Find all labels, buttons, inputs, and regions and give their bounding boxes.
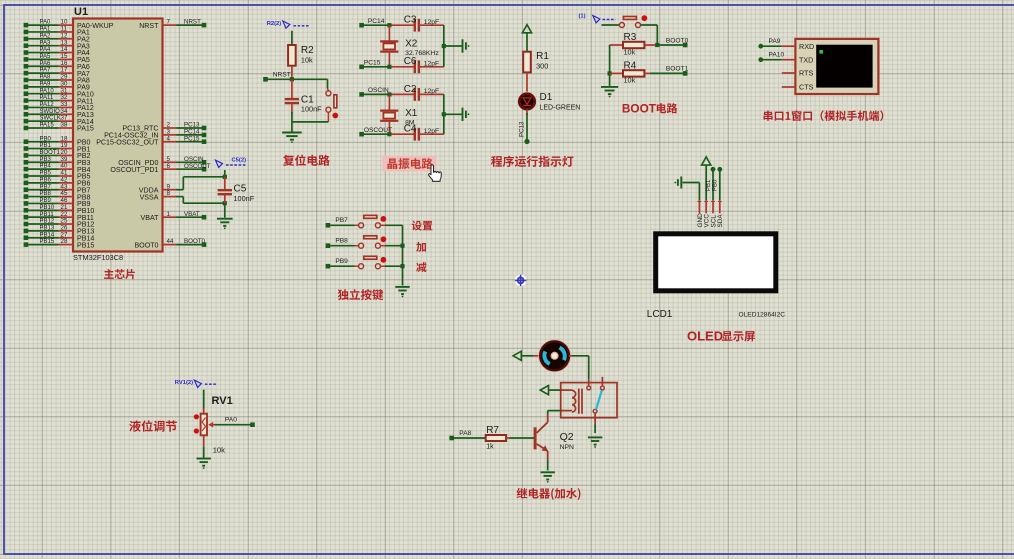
wire VDDA to C5 top node (176, 177, 225, 190)
svg-text:PB1: PB1 (706, 179, 712, 191)
IC U1 STM32F103C8 body (73, 19, 163, 252)
wire VSSA to C5 bottom node (176, 197, 225, 204)
svg-text:D1: D1 (540, 92, 553, 103)
reset push button vertical (326, 79, 337, 122)
svg-text:PC14: PC14 (368, 18, 385, 25)
relay switch lever cyan (596, 390, 602, 409)
svg-text:NRST: NRST (139, 22, 159, 30)
wire C1 bottom to ground (291, 122, 293, 132)
wire right vertical bus (444, 94, 462, 134)
blue snap marker (515, 275, 527, 287)
svg-text:12pF: 12pF (424, 19, 440, 26)
relay RL coil+switch box (561, 383, 617, 418)
ground Q2 (541, 472, 555, 483)
wire Q2 emitter to ground (547, 460, 549, 471)
pin PB0 (18) with net PB0 wire and terminal (24, 135, 91, 146)
terminal dot PC13 (524, 139, 529, 144)
capacitor C1 (285, 79, 299, 122)
svg-text:PA8: PA8 (40, 75, 52, 81)
svg-text:X2: X2 (405, 39, 418, 50)
svg-text:SWCLK: SWCLK (40, 116, 61, 122)
pin PB14 (27) with net PB14 wire and terminal (24, 231, 95, 242)
pin PA13 (34) with net SWDIO wire and terminal (24, 108, 94, 119)
pin VDDA (9) right side (139, 183, 177, 194)
svg-text:PB4: PB4 (40, 164, 52, 170)
svg-text:OLED12864I2C: OLED12864I2C (739, 312, 786, 319)
RV1 labels (212, 395, 233, 455)
wire OLED SCL to PB1 (706, 167, 716, 200)
svg-text:OLED: OLED (687, 328, 723, 343)
svg-text:100nF: 100nF (234, 194, 255, 203)
ground left of OLED (674, 177, 681, 189)
BOOT push button horizontal (619, 17, 640, 28)
svg-text:NRST: NRST (273, 72, 291, 79)
terminal pin RTS (782, 69, 814, 78)
svg-text:R3: R3 (624, 32, 637, 43)
wire R2 top stub (291, 31, 293, 45)
svg-text:RV1: RV1 (212, 395, 233, 407)
label 串口1窗口（模拟手机端） (764, 110, 884, 121)
pin PB8 (45) with net PB8 wire and terminal (24, 190, 91, 201)
svg-text:X1: X1 (405, 108, 418, 119)
svg-text:PC13: PC13 (519, 121, 526, 137)
svg-text:10k: 10k (213, 445, 225, 454)
pin NRST (7) right side (139, 19, 206, 30)
mouse hand cursor (429, 165, 442, 181)
junction OSCOUT/crystal (387, 132, 391, 136)
resistor R1 (523, 52, 531, 92)
resistor R7 labels (486, 425, 499, 450)
capacitor C5 (218, 177, 232, 203)
pin BOOT0 (44) right side (134, 238, 206, 249)
ground below C5 (217, 219, 233, 230)
wire power to relay coil (549, 389, 561, 391)
svg-text:1k: 1k (486, 443, 494, 450)
pin PB3 (39) with net PB3 wire and terminal (24, 156, 91, 167)
svg-text:VBAT: VBAT (140, 214, 159, 222)
svg-text:CTS: CTS (799, 83, 814, 92)
crystal X1 (380, 94, 398, 134)
transistor Q2 NPN (534, 414, 548, 460)
svg-text:44: 44 (167, 238, 174, 245)
wire BOOT1 with terminal (650, 66, 689, 76)
net label pointer R2(2) (267, 21, 309, 28)
svg-text:LED-GREEN: LED-GREEN (540, 105, 581, 112)
wire power to R1 (526, 33, 528, 52)
svg-text:4: 4 (167, 135, 171, 142)
wire C1 bottom to button bottom (292, 121, 329, 123)
power symbol left of motor (513, 351, 521, 360)
svg-text:6: 6 (167, 163, 171, 170)
svg-text:U1: U1 (74, 6, 88, 18)
svg-text:C5(2): C5(2) (232, 158, 247, 164)
svg-text:PC15: PC15 (184, 135, 200, 142)
capacitor C5 labels (234, 184, 255, 204)
pin VSSA (8) right side (140, 190, 177, 201)
wire relay coil to Q2 collector (548, 411, 561, 414)
svg-text:BOOT1: BOOT1 (40, 150, 61, 156)
wire PA8 to R7 (452, 437, 486, 439)
terminal pin CTS (782, 83, 814, 92)
svg-text:PA9: PA9 (769, 38, 781, 45)
svg-text:PB5: PB5 (40, 171, 52, 177)
wire OSCOUT row (362, 133, 391, 135)
wire BOOT button right down to BOOT0 (641, 25, 658, 45)
svg-text:PB7: PB7 (335, 217, 348, 224)
svg-text:PA12: PA12 (40, 102, 55, 108)
wire power to motor (521, 355, 540, 357)
selection highlight behind 晶振电路 (382, 156, 436, 172)
capacitor C1 labels (301, 94, 322, 113)
relay pin circles (587, 377, 605, 425)
svg-text:PC15-OSC32_OUT: PC15-OSC32_OUT (96, 138, 159, 146)
resistor R2 labels (301, 45, 314, 65)
svg-text:12pF: 12pF (424, 88, 440, 95)
svg-text:PA3: PA3 (40, 40, 52, 46)
junction key bus PB8 (400, 244, 404, 248)
svg-text:R2: R2 (301, 45, 314, 56)
svg-text:PB0: PB0 (713, 179, 719, 191)
label 设置 (set) (412, 221, 433, 231)
svg-text:PB14: PB14 (40, 232, 55, 238)
svg-text:TXD: TXD (799, 55, 813, 64)
svg-text:RV1(2): RV1(2) (175, 380, 193, 386)
svg-text:STM32F103C8: STM32F103C8 (73, 253, 123, 262)
RV1 adjust red dots (194, 414, 199, 433)
svg-text:PA5: PA5 (40, 54, 52, 60)
pin PA15 (38) with net PA15 wire and terminal (24, 122, 94, 133)
svg-text:C3: C3 (404, 15, 417, 26)
ground sideways right (463, 108, 470, 121)
junction PC15/crystal (387, 65, 391, 69)
potentiometer RV1 (201, 414, 207, 447)
pin PC14-OSC32_IN (3) right side (104, 129, 206, 140)
wire motor to relay common (569, 356, 589, 380)
svg-text:OSCOUT_PD1: OSCOUT_PD1 (110, 166, 158, 174)
terminal pin RXD (782, 42, 814, 51)
svg-text:PA9: PA9 (40, 81, 52, 87)
wire to ground BOOT (609, 73, 611, 86)
push button PB9 row (326, 256, 403, 268)
power symbol OLED VCC (702, 157, 711, 165)
pin VBAT (1) right side (140, 211, 206, 222)
pin PA5 (15) with net PA5 wire and terminal (24, 53, 90, 64)
svg-text:10k: 10k (624, 47, 636, 56)
svg-text:PB9: PB9 (40, 198, 52, 204)
wire PA9 to RXD (758, 38, 781, 48)
pin PB9 (46) with net PB9 wire and terminal (24, 197, 91, 208)
pin PA1 (11) with net PA1 wire and terminal (24, 26, 90, 37)
ground reset circuit (282, 133, 302, 144)
svg-text:PB7: PB7 (40, 184, 52, 190)
svg-text:PA0: PA0 (225, 417, 237, 424)
LED D1 (519, 94, 534, 109)
push button PB8 row (326, 236, 403, 248)
svg-text:BOOT0: BOOT0 (184, 238, 206, 245)
pin PB4 (40) with net PB4 wire and terminal (24, 163, 91, 174)
transistor Q2 labels (560, 431, 574, 451)
pin PA14 (37) with net SWCLK wire and terminal (24, 115, 94, 126)
label BOOT电路 (622, 101, 677, 115)
pin PA2 (12) with net PA2 wire and terminal (24, 32, 90, 43)
reset button red state dot (332, 113, 338, 119)
pin PA11 (32) with net PA11 wire and terminal (24, 94, 94, 105)
svg-text:(1): (1) (579, 13, 586, 19)
resistor R3 labels (624, 32, 637, 56)
svg-text:PB9: PB9 (335, 258, 348, 265)
svg-text:RTS: RTS (799, 69, 813, 78)
pin PB2 (20) with net BOOT1 wire and terminal (24, 149, 91, 160)
label 晶振电路 (crystal circuit) (387, 158, 432, 169)
wire OSCIN row (362, 93, 391, 95)
svg-text:BOOT: BOOT (622, 101, 657, 115)
junction NRST/R2/C1 (290, 77, 294, 81)
svg-text:PB10: PB10 (40, 205, 55, 211)
virtual terminal screen (816, 45, 872, 88)
svg-text:PB3: PB3 (40, 157, 52, 163)
junction OSCIN/crystal (387, 92, 391, 96)
svg-text:PB1: PB1 (40, 143, 52, 149)
svg-text:7: 7 (167, 19, 171, 26)
svg-text:C4: C4 (404, 124, 417, 135)
wire R7 to Q2 base (510, 437, 535, 439)
ground relay (588, 437, 602, 448)
svg-text:SDA: SDA (717, 214, 724, 228)
terminal pin TXD (782, 55, 814, 64)
svg-text:C6: C6 (404, 56, 417, 67)
resistor R4 (610, 70, 650, 76)
svg-text:PB0: PB0 (40, 136, 52, 142)
svg-text:10k: 10k (301, 56, 313, 65)
pin PB1 (19) with net PB1 wire and terminal (24, 142, 91, 153)
capacitor C6 labels (404, 56, 440, 67)
wire C5 labeled stub (224, 170, 226, 177)
svg-text:OSCIN: OSCIN (368, 87, 389, 94)
svg-text:BOOT0: BOOT0 (134, 241, 158, 249)
svg-text:12pF: 12pF (424, 128, 440, 135)
pin PA10 (31) with net PA10 wire and terminal (24, 87, 94, 98)
pin PB10 (21) with net PB10 wire and terminal (24, 204, 95, 215)
BOOT button red state dot (642, 15, 648, 21)
label 加 (plus) (416, 242, 426, 252)
net terminal PC15 (359, 60, 380, 70)
resistor R7 (486, 435, 510, 441)
pin PA0-WKUP (10) with net PA0 wire and terminal (24, 19, 114, 30)
svg-text:SWDIO: SWDIO (40, 109, 61, 115)
virtual terminal body (795, 39, 878, 94)
wire RV1 bottom to ground (203, 447, 205, 458)
relay coil (561, 389, 582, 414)
svg-text:PA11: PA11 (40, 95, 54, 101)
svg-text:BOOT0: BOOT0 (666, 37, 689, 44)
motor (pump) (539, 340, 571, 372)
RV1 wiper arrow (208, 422, 214, 428)
svg-text:12pF: 12pF (424, 61, 440, 68)
svg-text:300: 300 (536, 62, 548, 71)
capacitor C3 (391, 19, 444, 32)
junction node C5 top (223, 175, 227, 179)
pin PB7 (43) with net PB7 wire and terminal (24, 183, 91, 194)
pin PC13_RTC (2) right side (122, 122, 206, 133)
svg-text:PB11: PB11 (40, 212, 55, 218)
net label pointer RV1(2) (175, 380, 217, 387)
svg-text:PA8: PA8 (459, 430, 471, 437)
wire key bus vertical (402, 225, 404, 285)
svg-text:PC15: PC15 (364, 60, 381, 67)
pin PA4 (14) with net PA4 wire and terminal (24, 46, 90, 57)
pin PA3 (13) with net PA3 wire and terminal (24, 39, 90, 50)
svg-text:PA15: PA15 (40, 123, 55, 129)
svg-text:PB15: PB15 (40, 239, 55, 245)
svg-text:PA2: PA2 (40, 33, 52, 39)
svg-text:RXD: RXD (799, 42, 814, 51)
svg-text:PB8: PB8 (335, 237, 348, 244)
junction R4 left (608, 71, 612, 75)
resistor R4 labels (624, 60, 637, 84)
pin PC15-OSC32_OUT (4) right side (96, 135, 206, 146)
label 继电器(加水) (relay add-water) (517, 488, 581, 500)
label 减 (minus) (416, 262, 426, 272)
wire right vertical bus (444, 25, 462, 67)
pin PA7 (17) with net PA7 wire and terminal (24, 67, 90, 78)
terminal green cursor (819, 50, 823, 54)
resistor R2 (288, 45, 296, 79)
label 程序运行指示灯 (program run indicator) (491, 156, 573, 167)
svg-text:BOOT1: BOOT1 (666, 66, 689, 73)
wire R3 left down to R4 (609, 45, 611, 73)
pin PB11 (22) with net PB11 wire and terminal (24, 211, 94, 222)
svg-text:NPN: NPN (560, 444, 574, 451)
svg-text:C5: C5 (234, 184, 247, 195)
svg-text:8: 8 (167, 190, 171, 197)
svg-text:Q2: Q2 (560, 431, 574, 443)
svg-text:PB8: PB8 (40, 191, 52, 197)
net terminal PC14 (359, 18, 384, 28)
pin OSCIN_PD0 (5) right side (118, 156, 206, 167)
pin PA12 (33) with net PA12 wire and terminal (24, 101, 94, 112)
wire PA10 to TXD (758, 52, 784, 62)
svg-text:PA4: PA4 (40, 47, 52, 53)
svg-text:R4: R4 (624, 60, 637, 71)
svg-text:PA15: PA15 (77, 125, 94, 133)
capacitor C4 labels (404, 124, 440, 135)
svg-text:C2: C2 (404, 84, 417, 95)
ground sideways right (463, 39, 470, 52)
wire OLED SDA to PB0 (713, 167, 723, 200)
junction right bus mid (442, 112, 446, 116)
svg-text:OSCOUT: OSCOUT (184, 163, 211, 170)
svg-text:R2(2): R2(2) (267, 21, 282, 27)
capacitor C2 labels (404, 84, 440, 95)
ground BOOT circuit (601, 87, 618, 98)
resistor R1 labels (536, 51, 549, 71)
junction PC14/crystal (387, 23, 391, 27)
label 主芯片 (main chip) (104, 269, 135, 279)
crystal X1 labels (405, 108, 418, 127)
svg-text:PB13: PB13 (40, 225, 55, 231)
resistor R3 (610, 42, 658, 48)
capacitor C6 (391, 60, 444, 73)
svg-text:PA1: PA1 (40, 27, 52, 33)
OLED display LCD1 body (656, 234, 776, 291)
wire OLED GND pin (683, 183, 700, 201)
terminal PA8 (449, 430, 471, 440)
junction key bus PB9 (400, 264, 404, 268)
svg-text:PB6: PB6 (40, 177, 52, 183)
pin PA9 (30) with net PA9 wire and terminal (24, 80, 90, 91)
capacitor C3 labels (404, 15, 440, 26)
label OLED显示屏 (687, 328, 755, 343)
push button PB7 row (326, 215, 403, 227)
wire RV1 top (203, 390, 205, 414)
OLED labels (647, 309, 785, 320)
capacitor C2 (391, 88, 444, 101)
net label pointer (1) (579, 13, 616, 23)
svg-text:10k: 10k (624, 75, 636, 84)
svg-text:PB12: PB12 (40, 219, 55, 225)
crystal X2 labels (405, 39, 439, 58)
svg-text:NRST: NRST (184, 19, 201, 26)
ground RV1 (197, 459, 211, 470)
wire C5 node to ground (224, 203, 226, 217)
label 液位调节 (level adjust) (129, 420, 176, 432)
net label pointer C5(2) (216, 158, 247, 168)
pin PB6 (42) with net PB6 wire and terminal (24, 176, 91, 187)
pin PB12 (25) with net PB12 wire and terminal (24, 218, 95, 229)
svg-text:28: 28 (61, 238, 68, 245)
BOOT button wire left (602, 24, 620, 26)
OLED pin stubs (698, 200, 722, 213)
net terminal OSCOUT (359, 127, 392, 137)
wire PC14 row (362, 24, 391, 26)
svg-text:VBAT: VBAT (184, 211, 200, 218)
power symbol left of relay (540, 386, 548, 395)
pin PB5 (41) with net PB5 wire and terminal (24, 170, 91, 181)
junction node C5 bottom (223, 201, 227, 205)
wire PC15 row (362, 66, 391, 68)
pin PA6 (16) with net PA6 wire and terminal (24, 60, 90, 71)
svg-text:VSSA: VSSA (140, 193, 159, 201)
svg-text:PA0: PA0 (40, 20, 52, 26)
svg-text:PA7: PA7 (40, 68, 52, 74)
svg-text:OSCOUT: OSCOUT (364, 127, 392, 134)
svg-text:PA10: PA10 (40, 88, 55, 94)
label 复位电路 (reset circuit) (283, 155, 330, 166)
svg-text:PA10: PA10 (769, 52, 785, 59)
wire relay NC to ground (594, 425, 596, 434)
svg-text:PA6: PA6 (40, 61, 52, 67)
power symbol above R1 (522, 25, 531, 33)
capacitor C4 (391, 128, 444, 141)
svg-text:1: 1 (167, 211, 171, 218)
LED D1 labels (540, 92, 581, 112)
svg-text:R7: R7 (486, 425, 499, 436)
pin PB15 (28) with net PB15 wire and terminal (24, 238, 95, 249)
junction R3/BOOT0 (655, 43, 659, 47)
wire D1 to PC13 terminal (526, 110, 528, 142)
net terminal OSCIN (359, 87, 389, 97)
pin OSCOUT_PD1 (6) right side (110, 163, 210, 174)
svg-text:100nF: 100nF (301, 105, 322, 114)
svg-text:PB15: PB15 (77, 241, 94, 249)
junction right bus mid (442, 44, 446, 48)
svg-text:R1: R1 (536, 51, 549, 62)
pin PB13 (26) with net PB13 wire and terminal (24, 224, 95, 235)
node NRST wire (263, 72, 327, 82)
OLED pin names GND VCC SCL SDA (697, 213, 724, 228)
svg-text:LCD1: LCD1 (647, 309, 673, 320)
ground keys (395, 287, 409, 298)
